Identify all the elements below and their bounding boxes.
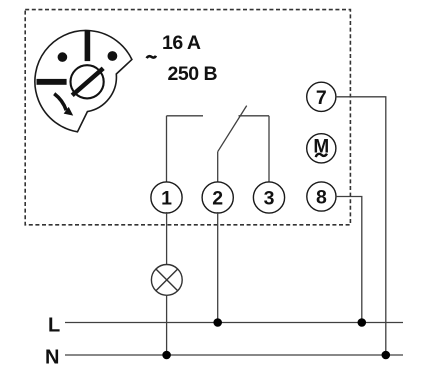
svg-text:250 B: 250 B: [168, 63, 218, 85]
svg-text:8: 8: [316, 187, 327, 209]
terminal 1: [151, 182, 182, 213]
motor M~ symbol: [307, 134, 336, 163]
wire: terminal 8 to right rail: [336, 197, 362, 323]
terminal 2: [202, 182, 233, 213]
wire: terminal 1 down to lamp: [166, 212, 168, 265]
svg-text:1: 1: [161, 188, 172, 210]
timer dial icon: left tick bar: [37, 79, 67, 85]
timer dial icon: right dot: [108, 51, 118, 61]
svg-text:2: 2: [212, 188, 223, 210]
lamp: [151, 265, 182, 296]
wire: terminal 7 to right rail: [336, 97, 386, 355]
svg-text:N: N: [45, 347, 59, 369]
L rail: [65, 322, 403, 324]
timer dial icon: center knob: [71, 65, 104, 98]
junction dot: terminal2 wire on L: [213, 318, 222, 327]
wire: lamp down to N: [166, 295, 168, 355]
wire: terminal 2 up lead: [217, 152, 219, 182]
timer dial icon: knob slot: [72, 68, 103, 95]
terminal 7: [307, 82, 336, 111]
terminal 8: [307, 182, 336, 211]
timer dial icon: top tick bar: [85, 30, 91, 61]
junction dot: terminal8 wire on L: [358, 318, 367, 327]
timer dial icon: cam body outline: [35, 30, 132, 131]
wire: terminal 1 up lead: [166, 116, 168, 182]
N rail: [65, 354, 403, 356]
svg-text:16 A: 16 A: [162, 32, 201, 54]
svg-text:3: 3: [264, 188, 275, 210]
junction dot: lamp on N: [162, 351, 171, 360]
wire: contact 1 horizontal: [167, 115, 204, 117]
wire: terminal 3 up lead: [268, 116, 270, 182]
terminal 3: [253, 182, 284, 213]
timer dial icon: rotation arrow: [54, 94, 66, 111]
wire: contact 3 horizontal: [239, 115, 270, 117]
svg-text:L: L: [48, 315, 60, 337]
enclosure dashed boundary: [25, 10, 350, 225]
timer dial icon: left dot: [58, 52, 68, 62]
junction dot: terminal7 wire on N: [382, 351, 391, 360]
rating tilde ~: [147, 56, 156, 59]
wire: terminal 2 down to L: [217, 212, 219, 323]
switch blade from terminal 2: [218, 106, 247, 152]
svg-text:7: 7: [316, 87, 327, 109]
